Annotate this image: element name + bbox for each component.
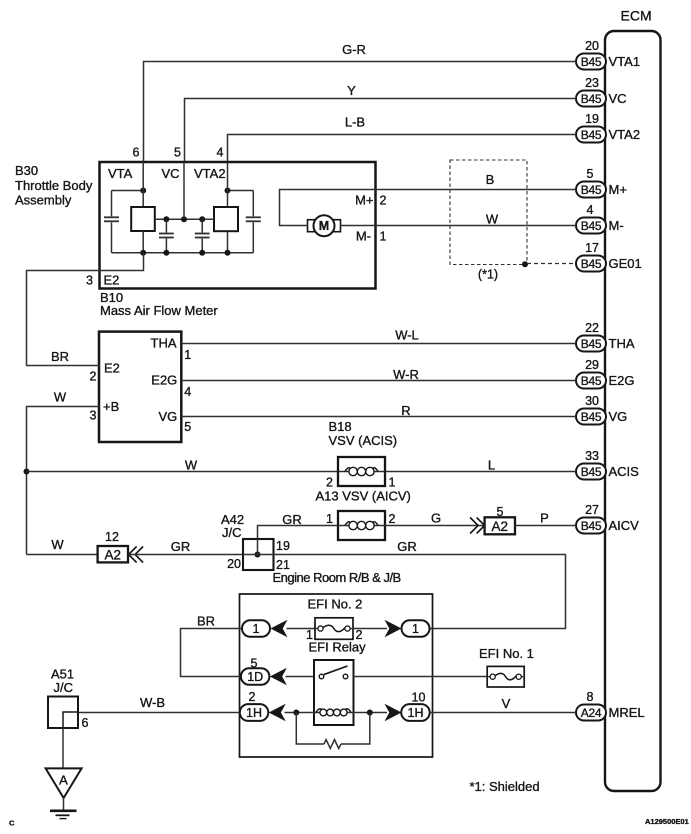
svg-text:VG: VG: [159, 409, 178, 424]
relay coil: [314, 709, 354, 716]
svg-text:BR: BR: [51, 349, 69, 364]
svg-text:E2: E2: [104, 273, 120, 288]
svg-text:A2: A2: [492, 519, 509, 534]
wire G : VSV AICV to connector A2: [385, 511, 485, 526]
svg-text:B45: B45: [581, 128, 602, 142]
svg-text:3: 3: [86, 274, 93, 288]
B30 internal top rail with junction nodes: [112, 188, 254, 194]
fuse pin 2: [356, 628, 363, 642]
svg-text:THA: THA: [609, 336, 635, 351]
svg-text:2: 2: [249, 690, 256, 704]
svg-text:BR: BR: [197, 614, 215, 629]
B30 pin 1 M-: [356, 229, 387, 244]
wire V : connector 1H to ECM MREL: [430, 696, 576, 713]
svg-text:2: 2: [389, 512, 396, 526]
svg-text:4: 4: [217, 146, 224, 160]
svg-text:GR: GR: [171, 539, 191, 554]
svg-text:17: 17: [585, 241, 599, 255]
node: W branch junction: [24, 469, 30, 475]
svg-text:W-R: W-R: [393, 367, 419, 382]
svg-text:Mass Air Flow Meter: Mass Air Flow Meter: [100, 303, 218, 318]
svg-text:L: L: [488, 457, 495, 472]
B30 Throttle Body Assembly box: [15, 162, 376, 289]
svg-text:EFI No. 1: EFI No. 1: [479, 646, 534, 661]
connector A2 pin 5 (shield-to-engine junction): [470, 505, 515, 534]
svg-text:1: 1: [253, 622, 260, 636]
svg-text:30: 30: [585, 394, 599, 408]
svg-text:C: C: [9, 818, 15, 827]
svg-text:G-R: G-R: [342, 42, 366, 57]
ECM pin 33 connector B45 terminal ACIS: [576, 449, 639, 479]
B30 VTA sensor element (left square): [131, 162, 155, 253]
A13 VSV (AICV) solenoid: [316, 489, 411, 541]
ground point A (triangle): [46, 768, 82, 798]
resistor bypass across relay coil: [296, 713, 370, 749]
svg-text:AICV: AICV: [609, 518, 640, 533]
wire GR : A42 J/C to VSV AICV: [258, 512, 339, 555]
svg-text:VC: VC: [162, 166, 180, 181]
ECM pin 23 connector B45 terminal VC: [576, 76, 627, 106]
wire W / L : junction to VSV ACIS to ECM ACIS: [27, 457, 577, 472]
wire to EFI No.2 fuse: [287, 628, 316, 630]
relay switch contacts: [319, 666, 348, 679]
svg-text:EFI No. 2: EFI No. 2: [308, 597, 363, 612]
wire relay to EFI No.1 fuse: [354, 676, 488, 678]
svg-text:3: 3: [90, 409, 97, 423]
capacitor C-right of VTA2: [246, 191, 261, 253]
shield drain node: [522, 261, 528, 267]
svg-text:+B: +B: [103, 399, 119, 414]
svg-text:B45: B45: [581, 219, 602, 233]
svg-text:*1: Shielded: *1: Shielded: [470, 779, 540, 794]
svg-text:VTA1: VTA1: [609, 54, 641, 69]
shield drain wire to GE01: [527, 263, 576, 265]
svg-text:B45: B45: [581, 92, 602, 106]
B10 pin 2 E2: [90, 361, 120, 384]
svg-text:(*1): (*1): [478, 268, 498, 282]
ECM pin 22 connector B45 terminal THA: [576, 321, 635, 351]
svg-text:Y: Y: [347, 83, 356, 98]
ECM pin 27 connector B45 terminal AICV: [576, 503, 639, 533]
svg-text:1D: 1D: [247, 670, 263, 684]
wire W-B : A51 J/C to relay connector 1H: [78, 695, 240, 713]
svg-text:1H: 1H: [246, 706, 262, 720]
svg-text:W: W: [486, 212, 499, 227]
svg-text:ACIS: ACIS: [609, 464, 640, 479]
svg-text:GE01: GE01: [609, 256, 642, 271]
svg-text:6: 6: [82, 716, 89, 730]
svg-text:B45: B45: [581, 465, 602, 479]
svg-text:GR: GR: [282, 512, 302, 527]
svg-text:27: 27: [585, 503, 599, 517]
svg-text:4: 4: [184, 385, 191, 399]
svg-text:THA: THA: [151, 336, 177, 351]
svg-text:19: 19: [585, 112, 599, 126]
ECM pin 5 connector B45 terminal M+: [576, 167, 627, 197]
connector A2 pin 12: [98, 530, 144, 563]
B10 pin 3 +B: [90, 399, 120, 423]
svg-text:8: 8: [587, 690, 594, 704]
wire W-R : E2G to ECM: [182, 367, 577, 382]
svg-text:W: W: [51, 537, 64, 552]
svg-text:23: 23: [585, 76, 599, 90]
wire B : motor M+ loop to ECM M+: [280, 190, 577, 226]
ECM pin 29 connector B45 terminal E2G: [576, 358, 635, 388]
drawing number A129500E01: [645, 817, 689, 826]
svg-text:2: 2: [326, 476, 333, 490]
svg-text:5: 5: [497, 505, 504, 519]
svg-text:33: 33: [585, 449, 599, 463]
B10 pin 1 THA: [151, 336, 192, 362]
svg-text:5: 5: [174, 146, 181, 160]
capacitor C-mid-left: [159, 219, 174, 253]
svg-text:2: 2: [90, 370, 97, 384]
svg-text:Throttle Body: Throttle Body: [15, 178, 93, 193]
A42 J/C pin 20: [227, 557, 241, 571]
svg-text:W-L: W-L: [395, 328, 419, 343]
svg-text:1: 1: [412, 622, 419, 636]
svg-text:VTA2: VTA2: [609, 127, 641, 142]
relay connector 1H pin 2: [240, 690, 286, 721]
svg-text:10: 10: [412, 691, 426, 705]
wire R : VG to ECM: [182, 403, 577, 418]
svg-text:M+: M+: [609, 182, 627, 197]
ECM pin 19 connector B45 terminal VTA2: [576, 112, 640, 142]
wire to ground triangle: [62, 728, 64, 768]
note *1 shielded: [470, 779, 540, 794]
VSV ACIS pin 2: [326, 476, 333, 490]
svg-text:Assembly: Assembly: [15, 192, 72, 207]
svg-text:R: R: [401, 403, 410, 418]
wire GR : A42 J/C loop to EFI No.2 fuse output: [274, 539, 566, 629]
svg-text:B45: B45: [581, 337, 602, 351]
relay connector 1D pin 5: [241, 657, 287, 686]
B30 middle rail VC node: [155, 162, 214, 222]
capacitor C-left of VTA: [104, 191, 119, 253]
svg-text:5: 5: [184, 420, 191, 434]
svg-text:W: W: [54, 390, 67, 405]
A42 J/C junction connector: [221, 512, 274, 570]
ECM body B45/A24 connector shell: [605, 8, 661, 792]
wire W : +B feed from junction: [27, 390, 100, 555]
svg-text:M: M: [319, 219, 329, 233]
VSV AICV pin 2: [389, 512, 396, 526]
svg-text:VSV (ACIS): VSV (ACIS): [329, 433, 398, 448]
svg-text:A: A: [59, 773, 68, 788]
ECM pin 4 connector B45 terminal M-: [576, 203, 624, 233]
svg-text:B45: B45: [581, 55, 602, 69]
svg-text:P: P: [540, 511, 549, 526]
wire BR : connector 1 loop to relay connector 1D: [181, 614, 243, 677]
A42 J/C pin 21: [276, 558, 290, 572]
svg-text:22: 22: [585, 321, 599, 335]
svg-text:L-B: L-B: [345, 115, 365, 130]
svg-text:1: 1: [326, 512, 333, 526]
svg-text:A129500E01: A129500E01: [645, 817, 689, 826]
J/B connector 1 (right): [385, 620, 430, 638]
svg-text:VG: VG: [609, 409, 628, 424]
wire G-R : VTA pin6 to ECM VTA1: [144, 42, 577, 162]
svg-text:MREL: MREL: [609, 705, 645, 720]
svg-text:B18: B18: [329, 419, 352, 434]
svg-text:B45: B45: [581, 257, 602, 271]
ECM pin 30 connector B45 terminal VG: [576, 394, 627, 424]
B30 pin 3 E2: [86, 273, 119, 288]
svg-text:20: 20: [585, 39, 599, 53]
ground symbol: [50, 798, 77, 819]
svg-text:G: G: [431, 511, 441, 526]
svg-text:Engine Room R/B & J/B: Engine Room R/B & J/B: [273, 570, 401, 585]
svg-text:E2G: E2G: [609, 373, 635, 388]
fuse EFI No. 2: [308, 597, 363, 640]
wire L-B : VTA2 pin4 to ECM VTA2: [228, 115, 577, 163]
svg-text:B30: B30: [15, 163, 38, 178]
relay connector 1H (right) pin 10: [385, 691, 430, 722]
svg-text:E2G: E2G: [151, 373, 177, 388]
svg-text:20: 20: [227, 557, 241, 571]
svg-text:1: 1: [380, 230, 387, 244]
svg-text:E2: E2: [104, 361, 120, 376]
A51 J/C junction connector pin 6: [48, 667, 89, 731]
wire W-L : THA to ECM: [182, 328, 577, 344]
VSV ACIS pin 1: [389, 476, 396, 490]
B18 VSV (ACIS) solenoid: [329, 419, 398, 486]
A42 J/C pin 19: [276, 539, 290, 553]
VSV AICV pin 1: [326, 512, 333, 526]
svg-text:VTA: VTA: [108, 166, 133, 181]
svg-text:B45: B45: [581, 374, 602, 388]
svg-text:J/C: J/C: [222, 525, 242, 540]
svg-text:29: 29: [585, 358, 599, 372]
svg-text:W: W: [185, 458, 198, 473]
shielded cable boundary (*1): [450, 160, 527, 282]
B10 pin 4 E2G: [151, 373, 191, 400]
wire relay coil to connector 1H (right): [354, 710, 388, 716]
svg-text:2: 2: [380, 194, 387, 208]
ECM pin 8 connector A24 terminal MREL: [576, 690, 645, 720]
svg-text:19: 19: [276, 539, 290, 553]
fuse pin 1: [306, 628, 313, 642]
svg-text:M-: M-: [609, 218, 624, 233]
svg-text:A24: A24: [581, 706, 602, 720]
svg-text:VC: VC: [609, 91, 627, 106]
svg-text:6: 6: [133, 146, 140, 160]
J/B connector 1 (left): [242, 620, 288, 638]
svg-text:A13 VSV (AICV): A13 VSV (AICV): [316, 489, 411, 504]
svg-text:1: 1: [184, 348, 191, 362]
B30 pin 6 VTA: [108, 146, 140, 182]
svg-text:12: 12: [105, 530, 119, 544]
throttle motor M: [308, 215, 341, 236]
wire Y : VC pin5 to ECM VC: [185, 83, 577, 162]
svg-text:A2: A2: [105, 547, 122, 562]
svg-text:M+: M+: [355, 193, 373, 208]
B30 internal ground rail with junction nodes: [112, 250, 254, 256]
svg-text:VTA2: VTA2: [194, 166, 226, 181]
ECM pin 17 connector B45 terminal GE01: [576, 241, 642, 271]
wire GR : connector A2-12 to A42 J/C: [129, 539, 243, 555]
ECM pin 20 connector B45 terminal VTA1: [576, 39, 640, 69]
B10 Mass Air Flow Meter box: [99, 290, 218, 442]
svg-text:V: V: [502, 696, 511, 711]
wire W : junction down to connector A2 pin 12: [27, 537, 98, 555]
wire 1D to relay: [286, 676, 315, 678]
B30 pin 4 VTA2: [194, 146, 226, 182]
svg-text:GR: GR: [397, 539, 417, 554]
fuse EFI No. 1: [479, 646, 534, 687]
wire W : motor M- to ECM M-: [341, 225, 577, 227]
capacitor C-mid-right: [195, 219, 210, 253]
svg-text:B45: B45: [581, 519, 602, 533]
svg-text:ECM: ECM: [621, 8, 652, 24]
svg-text:B: B: [486, 172, 495, 187]
svg-text:M-: M-: [356, 229, 371, 244]
wire fuse to connector 1 (right): [353, 628, 387, 630]
svg-text:1: 1: [389, 476, 396, 490]
wire BR : B30 E2 to B10 E2: [27, 253, 144, 366]
B10 pin 5 VG: [159, 409, 192, 434]
B30 pin 5 VC: [162, 146, 182, 182]
EFI relay box: [309, 640, 367, 726]
svg-text:5: 5: [587, 167, 594, 181]
B30 VTA2 sensor element (right square): [214, 162, 238, 253]
svg-text:1H: 1H: [408, 706, 424, 720]
page letter C: [9, 818, 15, 827]
svg-text:B45: B45: [581, 183, 602, 197]
svg-text:J/C: J/C: [54, 680, 74, 695]
svg-text:B45: B45: [581, 410, 602, 424]
svg-text:W-B: W-B: [140, 695, 165, 710]
svg-text:EFI Relay: EFI Relay: [309, 640, 367, 655]
svg-text:4: 4: [587, 203, 594, 217]
B30 pin 2 M+: [355, 193, 386, 208]
wire 1H to relay coil: [285, 710, 315, 716]
wire P : connector A2 to ECM AICV: [515, 511, 576, 526]
Engine Room R/B and J/B box: [240, 570, 433, 757]
